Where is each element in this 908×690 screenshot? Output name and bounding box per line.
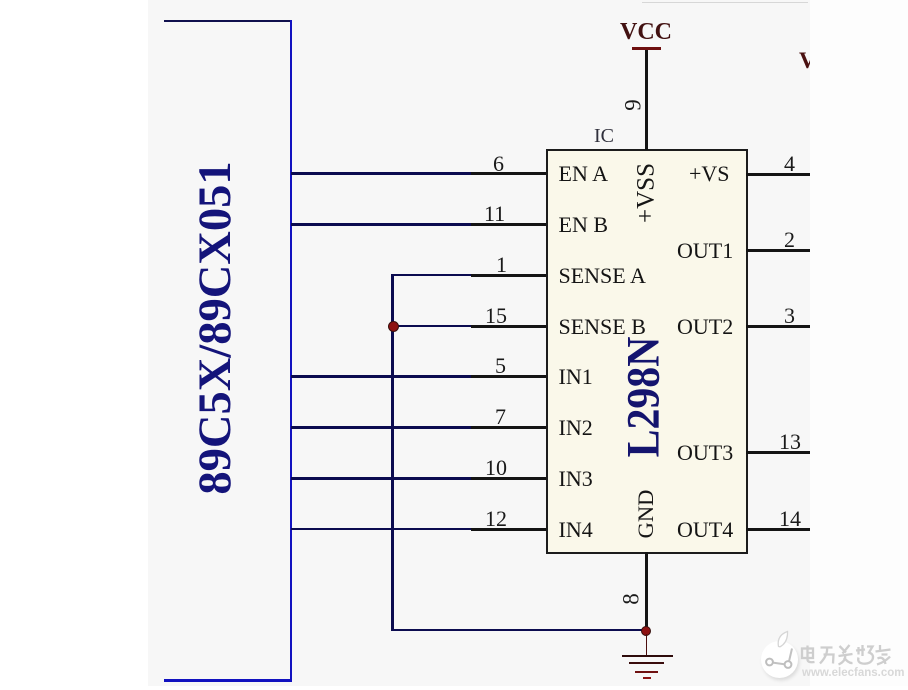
pin 12 (IN4) <box>471 528 547 531</box>
ground symbol bar 2 <box>629 662 664 664</box>
wire EN A (net from MCU to pin 6) <box>291 172 471 174</box>
pin 15 (SENSE B) <box>471 325 547 328</box>
IC L298N body <box>546 149 748 554</box>
pin name OUT3 <box>677 442 733 464</box>
pin name GND (rotated) <box>635 490 658 539</box>
ground symbol bar 1 <box>622 655 673 657</box>
wire IN4 <box>291 528 471 530</box>
pin name IN3 <box>559 468 593 490</box>
watermark logo circle <box>761 641 798 678</box>
watermark url text <box>802 667 904 679</box>
pin name EN B <box>559 214 609 236</box>
pin number 7 <box>495 406 506 428</box>
pin 7 (IN2) <box>471 426 547 429</box>
right page column (white) <box>810 0 908 690</box>
ground symbol stub <box>646 634 648 655</box>
pin number 11 <box>484 203 505 225</box>
pin number 8 (rotated) <box>619 593 642 605</box>
wire IN2 <box>291 426 471 428</box>
pin name OUT4 <box>677 519 733 541</box>
89C5X/89CX051 label <box>193 161 240 494</box>
power symbol VCC bar <box>632 47 661 50</box>
pin name OUT1 <box>677 240 733 262</box>
pin 8 (GND) vertical wire <box>645 552 648 631</box>
partial VCC symbol at right crop edge <box>799 49 816 72</box>
pin 3 (OUT2) <box>746 325 811 328</box>
pin 11 (EN B) <box>471 223 547 226</box>
IC designator label <box>594 126 614 146</box>
microcontroller 89C5X/89CX051 box: right edge <box>290 20 293 682</box>
pin number 4 <box>784 153 795 175</box>
pin 4 (+VS) <box>746 173 811 176</box>
pin name SENSE B <box>559 316 646 338</box>
faint top border of schematic image <box>642 2 808 3</box>
pin 9 (+VSS) vertical wire to VCC <box>645 49 648 150</box>
pin number 1 <box>496 254 507 276</box>
pin number 6 <box>493 153 504 175</box>
pin number 14 <box>779 508 801 530</box>
pin 6 (EN A) <box>471 172 547 175</box>
ground symbol bar 3 <box>635 671 658 673</box>
pin 1 (SENSE A) <box>471 274 547 277</box>
microcontroller 89C5X/89CX051 box: top edge <box>164 20 292 22</box>
pin number 2 <box>784 229 795 251</box>
watermark chinese text 电子发烧友 (drawn strokes) <box>799 644 894 666</box>
bottom page strip (white) <box>148 686 908 690</box>
schematic sheet background <box>148 0 810 686</box>
wire EN B <box>291 223 471 225</box>
pin 14 (OUT4) <box>746 528 811 531</box>
pin name IN2 <box>559 417 593 439</box>
pin name +VSS (rotated) <box>633 163 658 223</box>
microcontroller 89C5X/89CX051 box: bottom edge <box>164 679 292 682</box>
IC value label L298N <box>621 336 668 457</box>
pin 10 (IN3) <box>471 477 547 480</box>
pin number 5 <box>495 355 506 377</box>
pin name SENSE A <box>559 265 646 287</box>
wire ground net horizontal (SENSE to GND pin) <box>391 629 647 631</box>
pin number 13 <box>779 431 801 453</box>
wire IN1 <box>291 375 471 377</box>
pin number 15 <box>485 305 507 327</box>
pin name OUT2 <box>677 316 733 338</box>
pin name +VS <box>689 163 730 185</box>
pin name IN4 <box>559 519 593 541</box>
pin number 10 <box>485 457 507 479</box>
pin number 12 <box>485 508 507 530</box>
watermark logo artwork <box>752 622 812 684</box>
pin 5 (IN1) <box>471 375 547 378</box>
wire vertical from SENSE A/B down to ground net <box>391 274 393 631</box>
power symbol VCC text <box>620 20 672 44</box>
junction dot at ground node <box>641 626 652 637</box>
wire SENSE A horizontal <box>391 274 471 276</box>
pin number 9 (rotated) <box>622 99 645 111</box>
wire SENSE B horizontal <box>391 325 471 327</box>
pin 13 (OUT3) <box>746 451 811 454</box>
pin 2 (OUT1) <box>746 249 811 252</box>
junction dot on SENSE B <box>388 321 399 332</box>
pin name IN1 <box>559 366 593 388</box>
wire IN3 <box>291 477 471 479</box>
pin name EN A <box>559 163 609 185</box>
ground symbol bar 4 <box>643 677 651 679</box>
pin number 3 <box>784 305 795 327</box>
